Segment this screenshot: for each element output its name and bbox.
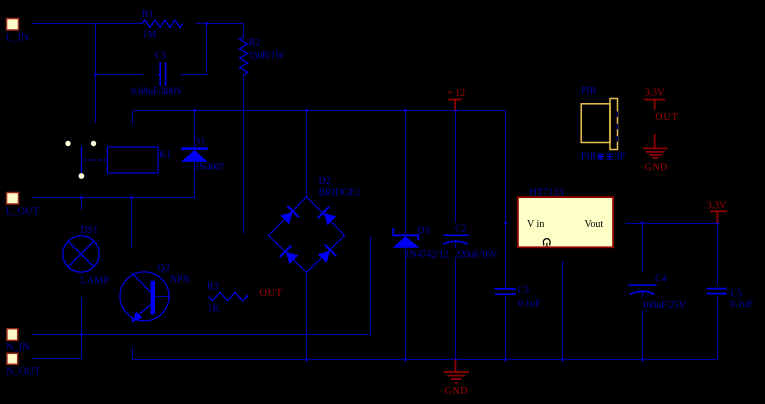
svg-text:L_OUT: L_OUT — [6, 207, 40, 218]
svg-text:LAMP: LAMP — [81, 276, 110, 287]
svg-text:V in: V in — [527, 219, 544, 230]
svg-text:L_IN: L_IN — [6, 33, 29, 44]
svg-text:OUT: OUT — [655, 112, 679, 123]
svg-text:R2: R2 — [249, 38, 261, 49]
svg-text:N_OUT: N_OUT — [6, 366, 41, 377]
svg-text:HT7133: HT7133 — [530, 188, 564, 199]
svg-text:3P: 3P — [615, 152, 626, 163]
svg-text:1N4007: 1N4007 — [195, 162, 225, 173]
svg-text:+ 12: + 12 — [447, 88, 465, 99]
svg-text:DS1: DS1 — [81, 225, 99, 236]
svg-text:OUT: OUT — [260, 288, 284, 299]
svg-text:PIR: PIR — [581, 152, 597, 163]
svg-text:N_IN: N_IN — [6, 342, 30, 353]
svg-text:220uF/16V: 220uF/16V — [455, 250, 498, 261]
svg-text:3.3V: 3.3V — [645, 87, 666, 98]
svg-text:0.1uF: 0.1uF — [518, 299, 542, 310]
svg-text:1K: 1K — [208, 304, 221, 315]
svg-text:BRIDGE1: BRIDGE1 — [319, 188, 361, 199]
svg-text:Q2: Q2 — [158, 263, 170, 274]
svg-text:R3: R3 — [207, 281, 219, 292]
svg-text:GND: GND — [445, 386, 468, 397]
svg-text:D3: D3 — [418, 225, 430, 236]
svg-text:150R/1W: 150R/1W — [249, 51, 286, 62]
svg-text:K1: K1 — [159, 150, 171, 161]
svg-text:R1: R1 — [142, 9, 154, 20]
svg-text:D2: D2 — [319, 176, 331, 187]
svg-text:C3: C3 — [518, 285, 530, 296]
svg-text:1N4742/12: 1N4742/12 — [405, 250, 449, 261]
svg-text:NPN: NPN — [170, 275, 190, 286]
svg-text:GND: GND — [645, 162, 668, 173]
svg-text:C4: C4 — [655, 273, 667, 284]
svg-text:1M: 1M — [143, 30, 157, 41]
svg-text:C5: C5 — [731, 288, 743, 299]
svg-text:0.68uF/400V: 0.68uF/400V — [131, 87, 184, 98]
svg-text:C2: C2 — [455, 224, 467, 235]
svg-text:3.3V: 3.3V — [707, 200, 728, 211]
svg-text:C1: C1 — [155, 51, 167, 62]
svg-text:PIR: PIR — [581, 86, 597, 97]
svg-text:0.1uF: 0.1uF — [730, 299, 754, 310]
svg-text:D1: D1 — [193, 136, 205, 147]
svg-text:100uF/25V: 100uF/25V — [642, 300, 687, 311]
svg-text:Vout: Vout — [585, 219, 604, 230]
